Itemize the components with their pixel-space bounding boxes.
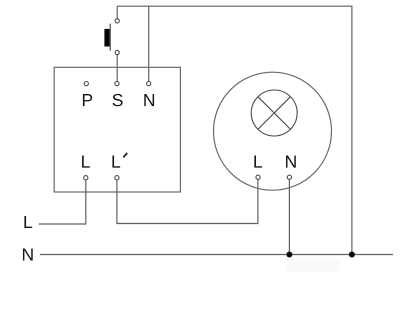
terminal L' (detector) <box>115 176 119 180</box>
pushbutton S1: actuator (black rectangle) <box>104 29 109 47</box>
wire: detector L terminal down and left to supply L <box>39 180 86 224</box>
pushbutton S1: top terminal <box>115 19 119 23</box>
lamp outline (circle) <box>214 72 332 190</box>
wire: top horizontal from pushbutton to right side, then down right edge <box>117 6 352 254</box>
terminal N (lamp) <box>287 175 291 179</box>
wire: lamp N terminal down to supply N line <box>288 179 290 254</box>
terminal N (detector) <box>147 82 151 86</box>
label N (detector) <box>144 94 154 106</box>
label S <box>113 94 123 106</box>
lamp symbol circle <box>251 90 297 136</box>
label N (lamp) <box>286 156 296 168</box>
junction: lamp N to supply N <box>286 252 292 258</box>
label L (lamp) <box>254 156 262 168</box>
wire: stub from top wire to pushbutton top terminal <box>116 6 118 19</box>
wire: pushbutton bottom terminal to S terminal <box>116 55 118 82</box>
pushbutton S1: bottom terminal <box>115 50 119 54</box>
motion detector body (rectangle) <box>54 67 180 192</box>
terminal L (lamp) <box>256 175 260 179</box>
prime mark of L' <box>123 153 127 157</box>
terminal S <box>115 82 119 86</box>
terminal L (detector) <box>84 176 88 180</box>
lamp symbol cross stroke 2 <box>258 97 291 130</box>
label L' (detector switched output) <box>112 156 120 168</box>
faint watermark remnant <box>286 259 340 272</box>
label L (supply) <box>24 216 32 228</box>
label N (supply) <box>23 248 33 260</box>
terminal P <box>84 82 88 86</box>
pushbutton S1: lever <box>109 24 111 51</box>
supply N line <box>40 254 393 256</box>
label L (detector output) <box>82 156 90 168</box>
lamp symbol cross stroke 1 <box>258 97 291 130</box>
label P <box>83 94 92 106</box>
wire: N terminal of detector up to top wire <box>148 6 150 81</box>
junction: right wire to supply N <box>349 252 355 258</box>
wire: detector L' terminal down, right, and up to lamp L terminal <box>117 179 258 223</box>
